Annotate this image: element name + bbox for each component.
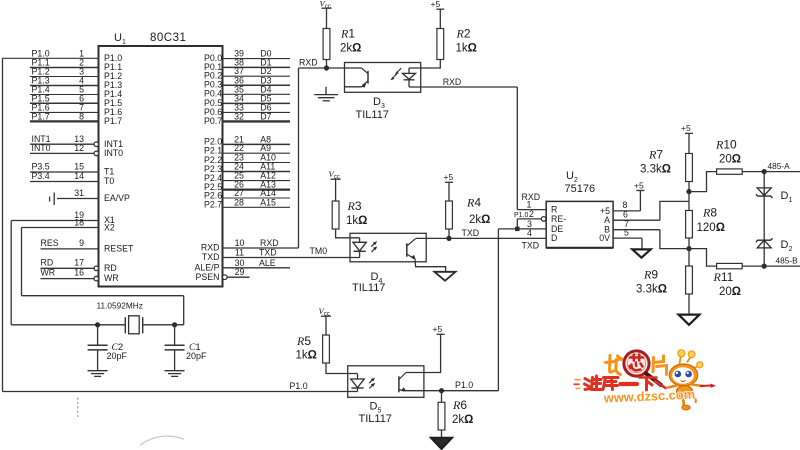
svg-text:3.3kΩ: 3.3kΩ [640,164,671,176]
svg-text:R10: R10 [715,138,737,152]
svg-text:14: 14 [74,171,84,181]
svg-text:5: 5 [624,227,629,237]
wire RXD pin 10 [223,247,299,249]
light arrows in D3 [397,68,402,73]
wire P2.2 pin 23 A10 [223,162,291,164]
crystal Y1 11.0592MHz [124,317,126,333]
wire P2.7 pin 28 A15 [223,206,291,208]
node C2 junction [95,322,100,327]
wire RE pin 2 [541,217,546,222]
wire +5 pin 8 [613,210,640,212]
wire P0.1 pin 38 D1 [223,66,291,68]
svg-text:TIL117: TIL117 [356,109,389,121]
node 485-B junction [762,264,767,269]
wire PSEN pin 29 [223,275,228,280]
svg-text:R9: R9 [643,268,658,282]
svg-text:RE-: RE- [551,214,566,224]
wire P3.5 pin 15 [30,171,99,173]
wire EA/VP pin 31 [57,198,99,200]
wire RD pin 17 [41,267,95,269]
wire dashed stub bottom left [77,398,79,418]
node R7/R10/A junction [686,189,691,194]
wire P0.0 pin 39 D0 [223,58,291,60]
wire INT1 pin 13 [30,143,94,145]
svg-text:11.0592MHz: 11.0592MHz [97,301,143,311]
wire crystal right vertical [183,296,185,325]
svg-text:31: 31 [74,188,84,198]
svg-text:3.3kΩ: 3.3kΩ [636,284,667,296]
wire D4 emitter to ground [415,259,446,272]
node R8/B/R11/R9 junction [686,246,691,251]
svg-text:RXD: RXD [299,58,318,68]
wire X2 vertical [21,228,23,296]
svg-text:TIL117: TIL117 [359,413,392,425]
wire P2.4 pin 25 A12 [223,180,291,182]
wire D5 emitter P1.0 output [404,390,498,392]
svg-text:11: 11 [235,248,244,258]
svg-text:17: 17 [74,257,84,267]
svg-text:RXD: RXD [201,243,220,253]
ground triangle below 0V [632,249,650,257]
wire P2.0 pin 21 A8 [223,143,291,145]
wire TXD to 75176 D pin [449,237,546,239]
wire crystal line right [143,324,184,326]
svg-text:2kΩ: 2kΩ [340,43,361,55]
pin bubble INT0 [94,151,99,156]
svg-text:A: A [604,215,610,225]
wire RXD vertical down to 75176 R [516,87,518,210]
svg-text:1kΩ: 1kΩ [296,350,317,362]
svg-text:6: 6 [623,210,628,220]
wire P1.2 pin 3 [30,76,99,78]
svg-text:P0.7: P0.7 [204,116,222,126]
svg-text:P1.7: P1.7 [104,116,122,126]
op-amp U2 75176 transceiver box [546,201,613,247]
ground below C1 [165,370,185,372]
wire RES pin 9 [41,248,99,250]
svg-text:TM0: TM0 [310,246,328,256]
svg-text:2kΩ: 2kΩ [452,414,473,426]
resistor R1 2k [323,29,330,60]
wire P1.4 pin 5 [30,94,99,96]
wire TXD from D4 collector [416,237,449,239]
wire P1.5 pin 6 [30,102,99,104]
LED in D3 [408,68,410,73]
wire P1.0 bottom bus [3,391,358,393]
node R1/RXD junction [324,65,329,70]
watermark magnifier [624,351,649,376]
wire R2 to D3 LED anode [409,60,440,69]
resistor R11 20 [689,249,717,267]
svg-text:RES: RES [41,238,59,248]
LED in D4 [359,238,361,243]
svg-text:RESET: RESET [104,243,134,253]
svg-text:X2: X2 [104,223,115,233]
wire P0.5 pin 34 D5 [223,102,291,104]
resistor R5 1k [323,335,330,363]
diode D2 zener [757,240,771,248]
svg-text:4: 4 [527,228,532,238]
ground for D3 input side [325,87,327,95]
svg-text:10: 10 [235,238,245,248]
svg-text:P1.7: P1.7 [32,112,50,122]
transistor in D4 (phototransistor) [406,243,408,256]
svg-text:485-B: 485-B [776,255,799,265]
wire P1.0 pin 1 [3,57,99,59]
svg-text:1kΩ: 1kΩ [456,43,477,55]
watermark mascot [668,350,716,410]
resistor R3 1k [332,201,339,229]
node 485-A junction [762,169,767,174]
resistor R2 1k [437,29,444,60]
wire RE to DE vertical [516,219,518,229]
svg-text:WR: WR [41,268,56,278]
wire P1.1 pin 2 [30,67,99,69]
wire RXD into D3 [299,67,345,69]
svg-text:RD: RD [104,263,117,273]
svg-text:+5: +5 [431,0,441,9]
svg-text:R11: R11 [713,270,734,284]
wire P0.7 pin 32 D7 [223,120,291,122]
wire R3 to D4 LED anode [336,229,360,238]
svg-text:RD: RD [41,257,54,267]
ground EA tie symbol [53,193,55,206]
pin bubble INT1 [94,142,99,147]
ground triangle below D4 [434,272,455,281]
ground below C2 [88,370,108,372]
wire P2.3 pin 24 A11 [223,171,291,173]
svg-text:20pF: 20pF [107,351,128,361]
transistor in D3 (phototransistor) [345,67,362,69]
svg-text:EA/VP: EA/VP [104,193,130,203]
svg-text:R1: R1 [340,27,355,41]
wire WR pin 16 [41,278,95,280]
svg-text:32: 32 [234,111,244,121]
wire P1.3 pin 4 [30,85,99,87]
resistor R9 3.3k [688,249,690,266]
wire P0.6 pin 33 D6 [223,111,291,113]
capacitor C1 [174,325,176,346]
capacitor C2 [97,325,99,346]
svg-text:485-A: 485-A [768,161,791,171]
svg-text:18: 18 [74,218,84,228]
svg-text:28: 28 [234,197,244,207]
svg-text:P1.0: P1.0 [290,381,308,391]
svg-text:D7: D7 [260,111,271,121]
wire P1.6 pin 7 [30,111,99,113]
wire X1 vertical [10,221,12,325]
wire X2 pin 18 [22,227,99,229]
svg-text:T1: T1 [104,167,114,177]
wire RXD vertical MCU to D3 [298,68,300,248]
svg-text:8: 8 [79,112,84,122]
svg-text:INT0: INT0 [104,148,123,158]
pin bubble RD [94,266,99,271]
op-amp U1 80C31 MCU box [99,46,223,287]
svg-text:R7: R7 [648,148,663,162]
wire +5 to D5 collector [406,334,441,372]
svg-text:20Ω: 20Ω [719,286,741,298]
resistor R7 3.3k [686,154,693,182]
svg-text:TXD: TXD [202,252,220,262]
svg-text:+5: +5 [433,324,443,334]
svg-text:+5: +5 [681,123,691,133]
LED in D5 [357,374,359,380]
wire B pin 7 [613,229,660,231]
svg-text:0V: 0V [599,233,610,243]
ground triangle below R9 [679,315,700,325]
node RE/DE junction [515,227,519,231]
wire R pin 1 [517,209,546,211]
svg-text:+5: +5 [634,181,644,191]
svg-text:R4: R4 [466,196,481,210]
node C1 junction [172,322,177,327]
wire P0.2 pin 37 D2 [223,75,291,77]
svg-text:ALE: ALE [259,258,276,268]
pin bubble WR [94,276,99,281]
svg-text:R8: R8 [702,206,717,220]
svg-text:120Ω: 120Ω [697,222,725,234]
light arrows in D4 [371,243,375,247]
node TXD junction R4/D4 [446,236,451,241]
wire diode rail vertical [763,172,765,267]
wire P1.0 left bus vertical [2,58,4,391]
wire A pin 6 [613,219,660,221]
svg-text:2: 2 [529,209,534,219]
wire 485-A line [764,171,800,173]
wire P3.4 pin 14 [30,181,99,183]
svg-text:TXD: TXD [462,228,480,238]
wire P0.3 pin 36 D3 [223,84,291,86]
svg-text:20pF: 20pF [186,351,207,361]
wire P0.4 pin 35 D4 [223,93,291,95]
wire faint arc bottom [140,436,184,445]
svg-text:PSEN: PSEN [196,272,220,282]
svg-text:12: 12 [74,143,84,153]
svg-text:D: D [551,233,557,243]
wire P1.7 pin 8 [30,120,99,122]
svg-text:A15: A15 [260,197,276,207]
wire DE pin 3 [498,228,546,230]
svg-text:P2.7: P2.7 [204,200,222,210]
svg-text:T0: T0 [104,176,114,186]
svg-text:TXD: TXD [259,248,277,258]
svg-text:16: 16 [74,268,84,278]
svg-text:75176: 75176 [565,183,596,195]
svg-text:RXD: RXD [260,238,279,248]
svg-text:P3.5: P3.5 [32,162,50,172]
svg-text:P3.4: P3.4 [32,171,50,181]
svg-text:2kΩ: 2kΩ [469,214,490,226]
svg-text:20Ω: 20Ω [719,154,741,166]
resistor R4 2k [446,201,453,229]
power +5 symbol at pin 8 [639,191,641,211]
optocoupler D3 box [345,63,421,93]
watermark dzsc logo [574,350,717,410]
wire R5 to D5 LED anode [326,363,358,374]
svg-text:29: 29 [235,267,245,277]
svg-text:INT0: INT0 [32,143,51,153]
wire crystal line left [11,324,125,326]
optocoupler D4 box [350,233,426,261]
optocoupler D5 box [348,366,424,398]
ground triangle below R6 (filled) [431,438,452,449]
wire RXD output of D3 [409,86,517,88]
svg-text:RXD: RXD [443,77,462,87]
svg-text:R3: R3 [347,199,362,213]
svg-text:R5: R5 [296,334,311,348]
wire ALE pin 30 [223,267,291,269]
transistor in D5 (phototransistor) [398,376,400,392]
wire P2.6 pin 27 A14 [223,197,291,199]
svg-text:R2: R2 [456,27,471,41]
wire 485-B line [764,265,800,267]
wire P1.0 vertical to 75176 DE [497,229,499,391]
wire X2 horizontal to crystal right [22,295,184,297]
svg-text:9: 9 [79,238,84,248]
resistor R8 120 [686,211,693,239]
wire 0V pin 5 [613,237,642,239]
svg-text:WR: WR [104,273,119,283]
resistor R6 2k [441,391,443,403]
wire INT0 pin 12 [30,152,94,154]
svg-text:80C31: 80C31 [150,32,186,44]
svg-text:P1.0: P1.0 [514,212,529,219]
svg-text:+5: +5 [444,172,454,182]
diode D1 zener [757,188,771,196]
svg-text:15: 15 [74,162,84,172]
wire junction to R8 [688,192,690,211]
wire P2.1 pin 22 A9 [223,152,291,154]
svg-text:P1.0: P1.0 [455,380,473,390]
wire TXD pin 11 (TM0 line to D4) [223,257,360,259]
resistor R10 20 [689,172,717,192]
wire X1 pin 19 [11,220,98,222]
svg-text:1kΩ: 1kΩ [346,215,367,227]
svg-text:R6: R6 [452,398,467,412]
svg-text:TIL117: TIL117 [352,282,385,294]
node P1.0/R6 junction [439,388,444,393]
svg-text:TXD: TXD [522,240,540,250]
wire P2.5 pin 26 A13 [223,189,291,191]
light arrows in D5 [369,379,373,383]
